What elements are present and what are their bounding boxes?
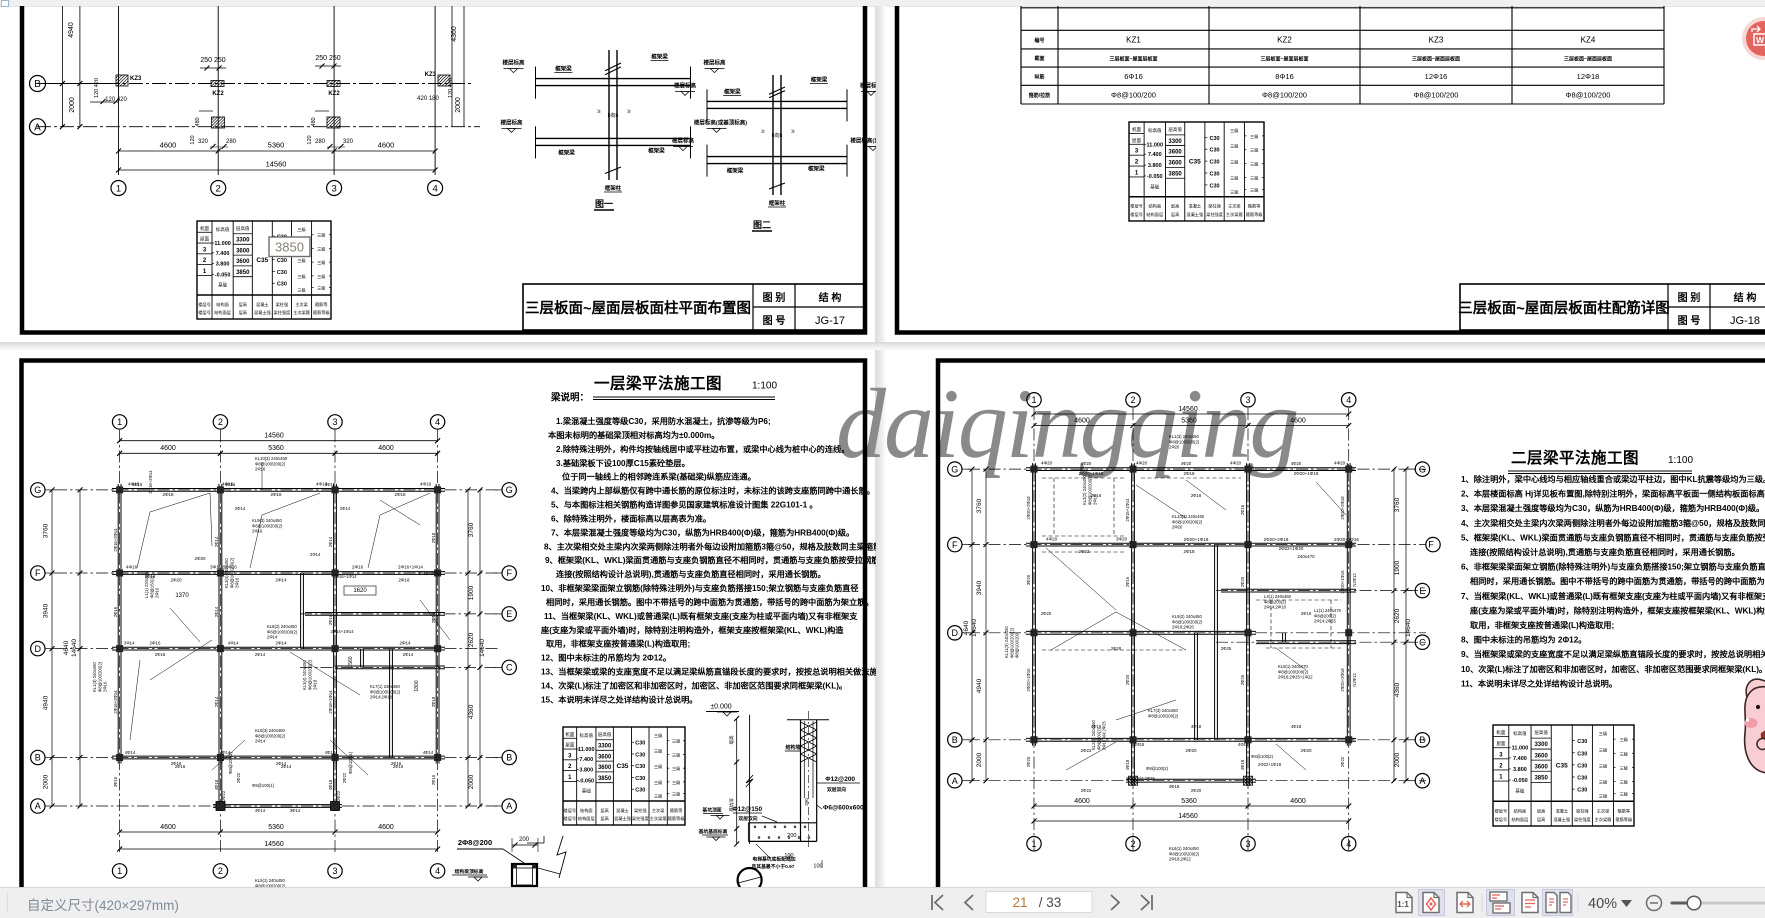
svg-text:三级: 三级 [1599,762,1608,769]
top dimension chain [120,440,438,442]
left dim chains [971,469,973,781]
svg-text:F: F [35,568,41,578]
axis bubbles 1-4 [111,181,126,196]
svg-text:Φ8@100/200(2): Φ8@100/200(2) [1172,619,1203,624]
svg-text:2000: 2000 [455,97,462,113]
svg-text:6、除特殊注明外，楼面标高以层高表为准。: 6、除特殊注明外，楼面标高以层高表为准。 [551,513,711,523]
svg-text:三层板面~屋面层板面: 三层板面~屋面层板面 [1261,56,1309,63]
svg-text:机面: 机面 [565,731,574,738]
svg-text:2Φ14;2Φ18: 2Φ14;2Φ18 [370,695,392,700]
svg-text:13、当框架梁或梁的支座宽度不足以满足梁纵筋直锚段长度的要求: 13、当框架梁或梁的支座宽度不足以满足梁纵筋直锚段长度的要求时，按按总说明相关做… [541,667,876,677]
svg-text:Φ8@100/200(2): Φ8@100/200(2) [97,661,102,692]
svg-text:B: B [952,735,958,745]
svg-text:2Φ16: 2Φ16 [113,606,118,617]
svg-text:3760: 3760 [468,522,475,537]
svg-text:6、非框架梁梁面架立钢筋(除特殊注明外)与支座负筋搭接150: 6、非框架梁梁面架立钢筋(除特殊注明外)与支座负筋搭接150;架立钢筋与支座负筋… [1461,562,1765,572]
svg-text:层高: 层高 [239,301,247,308]
svg-text:主次梁箍: 主次梁箍 [293,309,311,316]
svg-text:N2Φ12: N2Φ12 [1352,673,1357,687]
svg-text:结构面层: 结构面层 [1146,211,1163,218]
svg-text:D: D [952,628,959,638]
svg-text:层高: 层高 [1537,807,1545,814]
svg-text:2620: 2620 [468,632,475,647]
svg-text:1:100: 1:100 [752,381,777,392]
svg-text:2Φ14: 2Φ14 [281,764,292,769]
svg-text:4Φ20: 4Φ20 [1334,461,1346,466]
svg-text:结构面: 结构面 [216,301,229,308]
svg-text:2Φ22: 2Φ22 [1078,549,1090,554]
svg-text:结构面: 结构面 [1514,807,1527,814]
svg-text:2000: 2000 [69,97,76,113]
svg-text:3300: 3300 [236,238,250,244]
svg-text:KL6(1) 240x450: KL6(1) 240x450 [1169,846,1199,851]
svg-text:3.800: 3.800 [579,768,593,774]
svg-text:4Φ18: 4Φ18 [214,779,219,790]
svg-text:7、本层梁混凝土强度等级均为C30，纵筋为HRB400(Φ): 7、本层梁混凝土强度等级均为C30，纵筋为HRB400(Φ)级，箍筋为HRB40… [551,527,854,537]
svg-text:2: 2 [216,183,221,194]
svg-text:三层板面~屋面层板面柱平面布置图: 三层板面~屋面层板面柱平面布置图 [525,299,751,317]
svg-text:标高值: 标高值 [1513,730,1527,737]
svg-text:14640: 14640 [71,639,78,657]
svg-text:A: A [952,776,958,786]
svg-text:本图未标明的基础梁顶相对标高均为±0.000m。: 本图未标明的基础梁顶相对标高均为±0.000m。 [548,430,719,440]
svg-text:1: 1 [568,775,572,781]
svg-text:2Φ16: 2Φ16 [103,681,108,692]
svg-text:1:100: 1:100 [1668,455,1693,466]
svg-text:2Φ14;2Φ18: 2Φ14;2Φ18 [1264,605,1286,610]
svg-text:F: F [506,568,512,578]
svg-text:2Φ8@200: 2Φ8@200 [458,838,492,847]
svg-text:三级: 三级 [317,285,326,292]
beam section square [512,864,537,886]
svg-text:4Φ18: 4Φ18 [1134,742,1145,747]
column KZ3 at axis 1/B [116,75,128,86]
svg-text:C30: C30 [277,270,287,276]
view mode & zoom controls [1385,887,1765,918]
svg-text:1: 1 [1135,170,1139,176]
svg-text:3.800: 3.800 [1148,163,1162,169]
svg-text:混凝土强: 混凝土强 [254,309,272,316]
svg-text:梁说明：: 梁说明： [550,392,589,404]
svg-text:箍筋等级: 箍筋等级 [1615,816,1633,823]
plan grid centerlines [119,430,121,855]
svg-text:120: 120 [190,135,196,144]
svg-text:2Φ16: 2Φ16 [431,774,436,785]
svg-text:3: 3 [331,183,336,194]
svg-text:320: 320 [198,139,209,145]
svg-text:截面: 截面 [1034,55,1044,62]
svg-text:主次梁箍: 主次梁箍 [1595,816,1613,823]
svg-text:三级: 三级 [1620,791,1629,798]
svg-text:3850: 3850 [236,270,250,276]
left dimension chains [51,490,53,806]
svg-text:C35: C35 [617,763,629,770]
svg-text:100: 100 [784,853,793,859]
svg-text:座(支座为梁或平面外墙)时，除特别注明构造外，框架支座按框架: 座(支座为梁或平面外墙)时，除特别注明构造外，框架支座按框架梁(KL、WKL)构… [1469,605,1765,615]
svg-text:4Φ14: 4Φ14 [125,750,136,755]
svg-text:250 250: 250 250 [200,57,225,64]
svg-text:4Φ14: 4Φ14 [255,808,266,813]
svg-text:2Φ16: 2Φ16 [155,652,166,657]
svg-text:三级: 三级 [1230,174,1239,181]
svg-text:420 180: 420 180 [417,96,439,102]
svg-text:14560: 14560 [264,433,284,440]
svg-text:KL3(4) 240x450: KL3(4) 240x450 [302,660,307,690]
svg-text:C30: C30 [1209,136,1219,142]
svg-text:C30: C30 [277,258,287,264]
svg-text:2000: 2000 [43,774,50,789]
wall double lines with hatch [800,720,802,842]
svg-text:4Φ18: 4Φ18 [1240,759,1245,770]
svg-text:4Φ14: 4Φ14 [228,641,239,646]
svg-text:4600: 4600 [378,445,394,452]
svg-text:2Φ16+2Φ14: 2Φ16+2Φ14 [113,690,118,714]
svg-text:机面: 机面 [200,225,209,232]
svg-text:L1(1) 240x470: L1(1) 240x470 [1314,608,1342,613]
svg-text:框架梁: 框架梁 [648,146,665,154]
svg-text:4: 4 [1346,395,1351,405]
svg-text:2Φ20: 2Φ20 [194,556,206,561]
svg-text:11.000: 11.000 [1512,746,1529,752]
svg-text:三级: 三级 [297,273,306,280]
svg-text:8Φ16: 8Φ16 [1275,72,1294,81]
svg-text:Φ8@100/200(2): Φ8@100/200(2) [1172,519,1203,524]
svg-text:2Φ16+1Φ14: 2Φ16+1Φ14 [1125,498,1130,522]
page: first floor beam plan (JG-19) [22,361,866,918]
svg-text:3: 3 [1135,149,1139,155]
svg-text:层高: 层高 [1537,816,1545,823]
horizontal gap between page rows [0,342,1765,350]
svg-text:混凝土: 混凝土 [1189,203,1202,210]
svg-text:2Φ14: 2Φ14 [310,552,321,557]
floor elevation table at 243,122 [1129,122,1264,221]
svg-text:三级: 三级 [317,245,326,252]
svg-text:14560: 14560 [1178,813,1198,820]
svg-text:11、当框架梁(KL、WKL)或普通梁(L)既有框架支座(支: 11、当框架梁(KL、WKL)或普通梁(L)既有框架支座(支座为柱或平面内墙)又… [544,611,858,621]
svg-text:层高: 层高 [1171,211,1179,218]
svg-text:120: 120 [307,135,313,144]
svg-text:梁柱强度: 梁柱强度 [1574,816,1592,823]
svg-text:4Φ20: 4Φ20 [1181,461,1192,466]
bottom dims [1034,805,1349,807]
svg-text:200: 200 [787,833,796,839]
svg-text:2000: 2000 [468,774,475,789]
svg-text:2Φ18: 2Φ18 [431,532,436,543]
svg-text:4Φ18: 4Φ18 [1125,759,1130,770]
svg-text:三级: 三级 [1230,143,1239,150]
dimension chain bottom [119,150,436,152]
svg-text:框架梁: 框架梁 [811,75,828,83]
svg-text:2Φ16: 2Φ16 [235,577,240,588]
floor elevation table at 563,377 [563,727,685,825]
svg-text:14560: 14560 [264,841,284,848]
svg-text:4Φ14: 4Φ14 [423,750,434,755]
svg-text:层高: 层高 [1171,203,1179,210]
svg-text:4Φ16: 4Φ16 [325,482,336,487]
footing slab [748,822,816,824]
svg-text:320: 320 [343,139,354,145]
svg-text:2Φ18: 2Φ18 [1183,471,1195,476]
svg-text:KL3(4) 240x450: KL3(4) 240x450 [224,558,229,588]
svg-text:2: 2 [1499,763,1503,769]
svg-text:2: 2 [1130,395,1135,405]
svg-text:主次梁箍: 主次梁箍 [650,815,668,822]
svg-text:Φ8@100/200(2): Φ8@100/200(2) [1087,474,1092,505]
svg-text:三级: 三级 [1620,779,1629,786]
svg-text:3300: 3300 [1168,139,1182,145]
svg-text:KL1(3) 240x450: KL1(3) 240x450 [1169,434,1199,439]
svg-text:楼层标高: 楼层标高 [502,59,525,67]
svg-text:图二: 图二 [753,220,771,230]
svg-text:KL5(1) 240x450: KL5(1) 240x450 [255,878,285,883]
svg-text:C30: C30 [1209,160,1219,166]
svg-text:C30: C30 [1577,751,1587,757]
svg-text:2: 2 [1130,839,1135,849]
svg-text:1: 1 [1499,775,1503,781]
form field popup 3850 [269,237,310,257]
svg-text:楼层号: 楼层号 [198,301,211,308]
svg-text:280: 280 [315,139,326,145]
svg-text:-0.050: -0.050 [1512,778,1528,784]
svg-text:2Φ18: 2Φ18 [1191,493,1202,498]
svg-text:-0.050: -0.050 [578,778,594,784]
svg-text:层高: 层高 [600,807,608,814]
svg-text:8、主次梁相交处主梁内次梁两侧除注明者外每边设附加箍筋3箍@: 8、主次梁相交处主梁内次梁两侧除注明者外每边设附加箍筋3箍@50，规格及肢数同主… [544,541,876,551]
svg-text:4: 4 [435,417,440,427]
svg-text:D: D [35,644,42,654]
svg-text:5360: 5360 [268,141,285,150]
svg-text:框架梁: 框架梁 [808,165,825,173]
svg-text:Φ8@100/200(2): Φ8@100/200(2) [1009,627,1014,658]
floor elevation table at 607,375 [1493,725,1634,826]
svg-text:9、框架梁(KL、WKL)梁面贯通筋与支座负钢筋直径不相同时: 9、框架梁(KL、WKL)梁面贯通筋与支座负钢筋直径不相同时，贯通筋与支座负筋按… [545,555,876,565]
svg-text:箍筋等级: 箍筋等级 [313,309,331,316]
svg-text:2Φ22+1Φ20: 2Φ22+1Φ20 [1279,546,1304,551]
svg-text:混凝土: 混凝土 [1555,807,1568,814]
svg-text:C30: C30 [635,752,645,758]
svg-text:1800: 1800 [414,680,420,691]
svg-text:2Φ25: 2Φ25 [1221,646,1232,651]
svg-text:Φ8@100(2): Φ8@100(2) [1251,754,1274,759]
svg-text:Φ8@100(2): Φ8@100(2) [1146,766,1169,771]
svg-text:4: 4 [432,183,437,194]
svg-text:2Φ18: 2Φ18 [313,679,318,690]
svg-text:三级: 三级 [672,779,681,786]
svg-text:KL9(2) 240x450: KL9(2) 240x450 [1172,614,1202,619]
svg-text:图 号: 图 号 [1678,315,1701,327]
svg-text:4、主次梁相交处主梁内次梁两侧除注明者外每边设附加箍筋3箍@: 4、主次梁相交处主梁内次梁两侧除注明者外每边设附加箍筋3箍@50，规格及肢数同主… [1461,518,1765,528]
svg-text:2Φ20: 2Φ20 [1172,525,1183,530]
svg-text:E: E [506,609,512,619]
svg-text:结构面层: 结构面层 [214,309,231,316]
svg-text:3: 3 [1499,752,1503,758]
svg-text:Φ8@100/200: Φ8@100/200 [1414,91,1459,100]
svg-text:三级: 三级 [672,751,681,758]
svg-text:3940: 3940 [976,580,983,595]
svg-text:4360: 4360 [451,26,458,42]
left axis bubbles [31,483,45,497]
svg-text:三级: 三级 [1620,750,1629,757]
svg-text:C: C [506,663,513,673]
svg-text:4600: 4600 [160,445,176,452]
svg-text:2Φ22: 2Φ22 [1081,788,1092,793]
svg-text:C30: C30 [1577,776,1587,782]
svg-text:250 250: 250 250 [315,55,340,62]
svg-text:3600: 3600 [1168,150,1182,156]
svg-text:2Φ16: 2Φ16 [328,614,333,625]
svg-text:Φ8@100(1): Φ8@100(1) [348,751,353,774]
svg-text:Φ8@100/200(2): Φ8@100/200(2) [252,523,283,528]
svg-text:4940: 4940 [68,22,75,38]
svg-text:1:1: 1:1 [1397,900,1409,909]
svg-text:Φ8@100/200(2): Φ8@100/200(2) [1169,439,1200,444]
svg-text:混凝土: 混凝土 [256,301,269,308]
svg-text:Φ8@100/200(2): Φ8@100/200(2) [370,689,401,694]
svg-text:2Φ14;2Φ25: 2Φ14;2Φ25 [1314,619,1336,624]
beams [112,488,445,490]
svg-text:三层板面~屋面层板面: 三层板面~屋面层板面 [1412,56,1460,63]
svg-text:相同时，采用通长钢筋。图中不带括号的跨中面筋为贯通筋，带括号: 相同时，采用通长钢筋。图中不带括号的跨中面筋为贯通筋，带括号的跨中面筋为架立筋。 [546,597,874,607]
svg-text:三级: 三级 [1250,133,1259,140]
svg-text:三层板面~屋面层板面柱配筋详图: 三层板面~屋面层板面柱配筋详图 [1458,299,1669,317]
svg-text:层高值: 层高值 [236,225,250,232]
svg-text:2Φ14: 2Φ14 [399,641,411,646]
svg-text:2Φ20: 2Φ20 [1185,748,1197,753]
svg-text:280: 280 [226,139,237,145]
svg-text:4360: 4360 [1394,682,1401,697]
svg-text:3850: 3850 [1168,171,1182,177]
svg-text:三级: 三级 [654,747,663,754]
svg-text:图一: 图一 [595,199,613,209]
svg-text:A: A [35,801,41,811]
svg-text:7.400: 7.400 [579,757,593,763]
svg-text:2: 2 [218,417,223,427]
svg-text:2Φ20+1Φ16: 2Φ20+1Φ16 [1340,570,1345,594]
column at axis 3/A [327,117,340,128]
pink pig sticker (cut off at right edge) [1741,676,1765,778]
svg-text:三级: 三级 [317,232,326,239]
diag leaders [1186,480,1226,510]
svg-text:基坑基底标高: 基坑基底标高 [699,828,728,835]
svg-text:位于同一轴线上的相邻跨连系梁(基础梁)纵筋应连通。: 位于同一轴线上的相邻跨连系梁(基础梁)纵筋应连通。 [562,472,756,482]
svg-text:梁柱强: 梁柱强 [634,807,647,814]
svg-text:G: G [951,464,958,474]
svg-text:C35: C35 [1189,159,1201,166]
svg-text:楼层标高: 楼层标高 [500,118,523,126]
svg-text:Φ8@100/200(2): Φ8@100/200(2) [1278,669,1309,674]
svg-text:2Φ22: 2Φ22 [1080,748,1092,753]
svg-text:4Φ20: 4Φ20 [1230,461,1242,466]
svg-text:2Φ14: 2Φ14 [403,652,414,657]
svg-text:3600: 3600 [1168,161,1182,167]
svg-text:B: B [1419,735,1425,745]
svg-text:A: A [34,122,41,133]
svg-text:结构面层: 结构面层 [578,815,595,822]
svg-text:4Φ18: 4Φ18 [1238,742,1249,747]
svg-text:三级: 三级 [1230,127,1239,134]
KZ column schedule table [1020,0,1022,104]
svg-text:2Φ20: 2Φ20 [1240,576,1245,587]
svg-text:结构面: 结构面 [580,807,593,814]
svg-text:基础: 基础 [582,788,591,795]
svg-text:4600: 4600 [1074,798,1090,805]
page navigation [925,887,1165,918]
svg-text:三级: 三级 [1250,186,1259,193]
svg-text:KZ3: KZ3 [425,72,437,78]
svg-text:梁柱强: 梁柱强 [276,301,289,308]
svg-text:楼层标高: 楼层标高 [672,137,695,145]
svg-text:取用，非框架支座按普通梁(L)构造取用;: 取用，非框架支座按普通梁(L)构造取用; [546,639,690,649]
dashed interior slab edges [1042,476,1125,536]
svg-text:3600: 3600 [598,765,612,771]
svg-text:A: A [506,801,512,811]
svg-text:2Φ20: 2Φ20 [1191,788,1202,793]
svg-text:三级: 三级 [1620,736,1629,743]
svg-text:楼层标高(或基顶标高): 楼层标高(或基顶标高) [850,137,876,145]
svg-text:楼层号: 楼层号 [564,815,577,822]
svg-text:Φ8@200(2): Φ8@200(2) [1314,613,1337,618]
svg-text:3600: 3600 [236,259,250,265]
page JG-18: column reinforcement table [897,0,1765,333]
svg-text:2Φ14: 2Φ14 [255,739,266,744]
svg-text:7.400: 7.400 [216,251,230,257]
svg-text:KL6(3) 240x450: KL6(3) 240x450 [255,728,285,733]
svg-text:2Φ18: 2Φ18 [398,578,410,583]
svg-text:4940: 4940 [43,695,50,710]
svg-text:楼层号: 楼层号 [1495,816,1508,823]
svg-text:主次梁: 主次梁 [652,807,665,814]
svg-text:Φ8@100(1): Φ8@100(1) [228,751,233,774]
svg-text:基础: 基础 [1150,183,1159,190]
svg-text:座(支座为梁或平面外墙)时，除特别注明构造外，框架支座按框架: 座(支座为梁或平面外墙)时，除特别注明构造外，框架支座按框架梁(KL、WKL)构… [540,625,844,635]
red floating convert button [1742,17,1765,60]
svg-text:2Φ16: 2Φ16 [393,764,404,769]
svg-text:三级: 三级 [1599,746,1608,753]
svg-text:主次梁: 主次梁 [1228,203,1241,210]
svg-text:7、当框架梁(KL、WKL)或普通梁(L)既有框架支座(支座: 7、当框架梁(KL、WKL)或普通梁(L)既有框架支座(支座为柱或平面内墙)又有… [1461,591,1765,601]
svg-text:结构梁顶标高: 结构梁顶标高 [455,868,484,875]
svg-text:屋面: 屋面 [1132,138,1141,144]
svg-text:C30: C30 [1577,788,1587,794]
section circle bottom (cut) [738,868,762,892]
svg-text:2Φ18: 2Φ18 [162,492,174,497]
svg-text:2Φ18: 2Φ18 [431,696,436,707]
svg-text:C30: C30 [635,764,645,770]
svg-text:梁柱强度: 梁柱强度 [1206,211,1224,218]
svg-text:2Φ20+2Φ18: 2Φ20+2Φ18 [1340,496,1345,520]
svg-text:C30: C30 [1577,739,1587,745]
svg-text:480: 480 [311,117,317,126]
svg-text:4600: 4600 [1074,418,1090,425]
bottom status bar [0,887,1765,918]
svg-text:楼层标高: 楼层标高 [674,81,697,89]
svg-text:主次梁: 主次梁 [295,301,308,308]
diag leaders upper bays [150,493,210,512]
svg-text:楼层标高: 楼层标高 [703,59,726,67]
svg-text:4Φ16: 4Φ16 [420,482,432,487]
svg-text:B: B [35,753,41,763]
svg-text:且其基最不小于0.97: 且其基最不小于0.97 [752,863,795,870]
svg-text:4640: 4640 [63,640,70,655]
svg-text:12、图中未标注的吊筋均为 2Φ12。: 12、图中未标注的吊筋均为 2Φ12。 [541,653,671,663]
svg-text:3Φ20: 3Φ20 [1116,537,1128,542]
svg-text:连接(按照结构设计总说明),贯通筋与支座负筋直径相同时，采用: 连接(按照结构设计总说明),贯通筋与支座负筋直径相同时，采用通长钢筋。 [556,569,826,579]
svg-text:C35: C35 [1556,762,1568,769]
svg-text:JG-18: JG-18 [1730,315,1760,327]
svg-text:2Φ14: 2Φ14 [267,635,278,640]
svg-text:箍筋等级: 箍筋等级 [1246,211,1264,218]
svg-text:2Φ22+1Φ18: 2Φ22+1Φ18 [1258,762,1282,767]
